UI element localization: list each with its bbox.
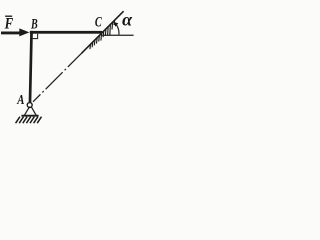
pin support A: ground line <box>21 115 38 117</box>
svg-text:F: F <box>4 15 14 32</box>
incline hatching <box>90 20 115 49</box>
label F with overbar <box>4 15 14 32</box>
force F arrow <box>1 28 29 36</box>
svg-text:B: B <box>30 16 37 32</box>
inclined support surface at C <box>82 11 124 53</box>
dash-dot line A to C <box>33 53 82 102</box>
svg-text:A: A <box>16 92 24 107</box>
pin support A: ground hatching <box>16 117 42 124</box>
svg-text:C: C <box>95 15 103 31</box>
svg-text:α: α <box>122 10 133 30</box>
right-angle mark at B <box>33 34 38 39</box>
member BC (horizontal beam) <box>30 31 102 34</box>
pin support A: triangle <box>24 107 36 116</box>
member AB (vertical column) <box>29 31 33 104</box>
angle alpha arc with arrowhead <box>113 22 119 35</box>
horizontal reference line at C <box>102 34 134 36</box>
pin support A: hinge circle <box>27 103 32 108</box>
